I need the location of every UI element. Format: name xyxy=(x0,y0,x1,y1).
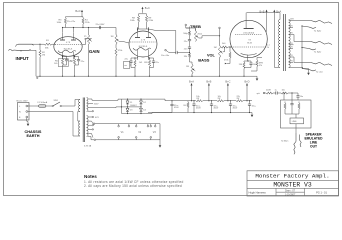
resistor R8 100k xyxy=(130,16,140,30)
label Notes xyxy=(84,174,97,179)
wire gain to ground xyxy=(88,45,89,77)
wire bridge left column xyxy=(122,99,128,113)
label mains 240V xyxy=(17,100,29,102)
wire tap common xyxy=(289,67,303,69)
resistor R2 1M xyxy=(39,44,46,57)
potentiometer BASS 1M xyxy=(186,62,195,74)
transformer T2 core xyxy=(284,14,286,71)
power B+B arrow screen xyxy=(260,9,268,31)
wire tap stub2 xyxy=(289,47,293,49)
wire V1 plate rail xyxy=(62,27,116,33)
capacitor C13 filter xyxy=(229,101,238,113)
potentiometer P2 1M xyxy=(111,35,120,45)
resistor R13 grid stopper xyxy=(221,43,228,48)
capacitor C3 22u xyxy=(77,57,85,65)
wire V1 cathode a xyxy=(62,55,67,77)
line out jack J5 xyxy=(294,133,301,154)
wire V3 plate to OT xyxy=(247,12,281,14)
heater V3 pins xyxy=(150,124,156,140)
svg-text:2W: 2W xyxy=(237,98,240,100)
label screen cap xyxy=(267,45,271,50)
resistor R18 22k xyxy=(236,96,243,102)
svg-text:B+B: B+B xyxy=(206,80,211,84)
heater V1 pins xyxy=(118,124,124,140)
resistor R21 in box xyxy=(284,102,286,115)
title page xyxy=(316,192,327,195)
svg-text:B+B: B+B xyxy=(260,9,265,13)
wire vol to ground xyxy=(219,58,220,77)
wire switch to cathode xyxy=(130,64,131,66)
label SPEAKER EMULATED LINE OUT xyxy=(304,132,323,148)
transformer T1 secondary HT xyxy=(87,98,88,112)
title date xyxy=(285,195,296,197)
wire HT tap bottom xyxy=(88,106,122,109)
svg-text:450V: 450V xyxy=(233,108,238,110)
label VOL xyxy=(207,53,215,57)
wire bridge mid rail xyxy=(121,106,142,107)
power rail B+B arrow xyxy=(206,80,211,101)
capacitor C2 22u xyxy=(65,57,73,65)
potentiometer VOL 1M xyxy=(214,45,223,58)
wire tap 16R xyxy=(289,19,298,21)
capacitor C0 reservoir xyxy=(170,100,195,112)
speaker jack J4 xyxy=(298,62,332,71)
wire bridge top rail xyxy=(127,99,146,100)
svg-text:GAIN: GAIN xyxy=(89,49,99,54)
wire heater tap 1 xyxy=(88,116,99,119)
svg-text:B+A: B+A xyxy=(189,80,194,84)
capacitor C14 filter xyxy=(248,101,257,113)
capacitor C6 22u xyxy=(152,58,160,66)
svg-text:Mains 240V: Mains 240V xyxy=(17,100,29,102)
resistor R12 33k xyxy=(184,53,191,58)
wire heater tap 5 xyxy=(84,134,93,148)
wire jack common bus xyxy=(301,25,302,68)
capacitor C8 500p xyxy=(183,31,190,36)
wire R1 to V1 grid xyxy=(52,43,56,45)
svg-text:6.3V 3A: 6.3V 3A xyxy=(84,144,92,147)
wire heater tap 3 xyxy=(88,125,94,126)
potentiometer GAIN 1M xyxy=(84,28,92,45)
capacitor C9 22n xyxy=(184,40,191,44)
wire V3 cathode node xyxy=(244,60,251,61)
svg-text:1M: 1M xyxy=(42,55,45,57)
node tone input xyxy=(185,24,190,28)
svg-text:BASS: BASS xyxy=(198,57,209,62)
wire screen feed xyxy=(266,31,267,33)
title company name xyxy=(255,173,329,180)
svg-text:Monster Factory Ampl.: Monster Factory Ampl. xyxy=(255,173,329,180)
node vol top xyxy=(219,27,221,45)
svg-text:16R: 16R xyxy=(290,19,294,21)
wire box to jack xyxy=(295,124,297,133)
resistor NFB 47k xyxy=(251,58,263,72)
wire heater tap 2 xyxy=(88,121,95,124)
svg-text:1u: 1u xyxy=(275,89,277,91)
node chassis ref xyxy=(37,77,38,78)
wire sec tap 5V xyxy=(88,111,94,112)
svg-text:1N4007: 1N4007 xyxy=(130,105,137,107)
svg-text:1M: 1M xyxy=(186,66,189,68)
svg-text:1-10-2007: 1-10-2007 xyxy=(285,195,296,197)
svg-text:2W: 2W xyxy=(196,98,199,100)
wire tap 4R xyxy=(289,43,294,45)
pilot lamp pins xyxy=(128,124,156,127)
resistor R4 220k xyxy=(82,18,91,28)
wire V2 cathode a xyxy=(131,57,138,77)
transformer T1 core xyxy=(83,98,84,143)
svg-text:B+A: B+A xyxy=(276,9,281,13)
wire V2 plate rail xyxy=(137,28,149,31)
wire vol wiper out xyxy=(223,47,225,52)
input jack J1 tip xyxy=(16,44,34,47)
node coupling xyxy=(165,49,176,52)
svg-text:LINE: LINE xyxy=(292,121,297,123)
wire HT tap top xyxy=(88,99,122,100)
wire T1 primary jog xyxy=(78,112,80,122)
svg-text:EL84: EL84 xyxy=(247,42,251,44)
title model name xyxy=(273,182,312,189)
svg-text:B+D: B+D xyxy=(244,80,249,84)
title drawn xyxy=(285,190,296,193)
wire B+ to OT primary xyxy=(274,66,280,68)
wire bridge bottom rail xyxy=(122,113,173,115)
diode D1 xyxy=(126,99,133,107)
label to spkr 2 xyxy=(314,50,322,53)
power rail B+A arrow xyxy=(189,80,194,102)
fuse F1 xyxy=(38,101,48,107)
ground speaker common xyxy=(302,68,310,76)
svg-text:450V: 450V xyxy=(196,108,201,110)
resistor R15 130R xyxy=(239,61,246,77)
resistor screen dropper xyxy=(183,101,189,113)
capacitor C10 100u xyxy=(244,61,258,68)
label rectifier diodes xyxy=(130,105,137,107)
resistor R6 cathode 820 xyxy=(70,59,76,66)
capacitor C5 22u xyxy=(125,58,133,66)
node line out input xyxy=(257,92,267,95)
svg-text:OUT: OUT xyxy=(310,144,317,148)
wire heater tap 4 xyxy=(88,129,94,130)
wire treb top xyxy=(186,28,196,31)
wire HT centre tap xyxy=(88,104,99,106)
svg-text:Hugh Harness: Hugh Harness xyxy=(249,191,267,195)
svg-text:2W: 2W xyxy=(218,98,221,100)
wire switch to PT xyxy=(61,100,80,107)
heater V2 pins xyxy=(135,124,141,140)
svg-text:MONSTER V3: MONSTER V3 xyxy=(273,182,312,189)
svg-text:47k: 47k xyxy=(259,65,262,67)
resistor R7 470k xyxy=(115,45,123,77)
power B+C arrow V2 xyxy=(142,6,151,14)
resistor R19 220R xyxy=(266,89,273,94)
label INPUT xyxy=(16,56,29,61)
triode V2 ECC83 xyxy=(129,27,157,60)
svg-text:10k: 10k xyxy=(282,89,285,91)
diode D2 xyxy=(140,99,147,107)
svg-text:220R: 220R xyxy=(266,89,271,91)
svg-text:To Spkr: To Spkr xyxy=(314,50,322,53)
transformer line xfmr xyxy=(290,118,304,124)
power rail B+D arrow xyxy=(244,80,249,101)
power B+A arrow OT xyxy=(273,9,281,67)
diode D3 xyxy=(126,107,133,114)
svg-text:B+C: B+C xyxy=(145,6,150,10)
label BASS xyxy=(198,57,209,62)
wire wiper to V2 grid xyxy=(119,42,129,44)
label GAIN xyxy=(89,49,99,54)
svg-text:To Main: To Main xyxy=(281,141,289,143)
wire box net xyxy=(285,114,299,118)
wire V2 cathode b xyxy=(149,57,154,77)
label TREB xyxy=(190,24,201,29)
label CHASSIS EARTH xyxy=(25,130,42,138)
wire into line out box xyxy=(283,92,292,100)
ground PSU rail xyxy=(251,113,254,118)
svg-text:450V: 450V xyxy=(174,107,179,109)
title author xyxy=(249,191,267,195)
resistor R20 10k xyxy=(281,89,298,94)
speaker jack J3 xyxy=(298,41,332,50)
wire V1 cathode b xyxy=(74,55,79,77)
diode D4 xyxy=(140,107,147,114)
resistor R3 100k xyxy=(57,18,67,28)
wire tap 8R xyxy=(289,33,298,42)
svg-text:470k: 470k xyxy=(224,60,228,62)
wire heater end xyxy=(159,124,161,143)
wire rail segment 4 xyxy=(243,100,252,101)
wire earth lead xyxy=(27,118,28,121)
resistor R17 10k xyxy=(217,96,224,102)
wire B+ feed V2 xyxy=(139,14,147,16)
capacitor C9b 22n xyxy=(184,47,191,51)
svg-text:INPUT: INPUT xyxy=(16,56,29,61)
wire bridge output xyxy=(146,99,172,101)
transformer T1 primary upper xyxy=(79,100,81,112)
transformer T2 primary xyxy=(279,13,281,68)
pentode V3 EL84 xyxy=(230,13,267,61)
box V1 cathode group xyxy=(58,59,68,67)
resistor R5 cathode 1k5 xyxy=(54,59,64,66)
wire PSU ground rail xyxy=(148,112,252,113)
wire R13 to grid xyxy=(228,46,231,48)
capacitor C16 10n xyxy=(296,93,303,100)
power rail B+C arrow xyxy=(225,80,230,101)
label to line xyxy=(316,72,324,74)
capacitor C17 in box xyxy=(290,100,293,114)
svg-text:2. All caps are Mallory 150 a: 2. All caps are Mallory 150 axial unless… xyxy=(84,184,182,188)
resistor R22 in box xyxy=(298,102,300,115)
wire tap stub3 xyxy=(289,61,293,63)
switch SW2 box xyxy=(124,62,130,69)
svg-text:22n+22n: 22n+22n xyxy=(67,21,76,23)
wire rail segment 2 xyxy=(203,100,217,101)
wire live to fuse xyxy=(28,105,39,107)
svg-text:EARTH: EARTH xyxy=(26,134,39,138)
svg-text:1M: 1M xyxy=(111,36,114,38)
power B+D arrow V1 xyxy=(75,9,83,17)
transformer T2 secondary xyxy=(289,20,291,68)
wire V1b grid from gain xyxy=(82,39,92,45)
switch SW1 xyxy=(52,100,61,107)
svg-text:325V: 325V xyxy=(94,104,99,106)
svg-text:Notes: Notes xyxy=(84,174,97,179)
capacitor C15 1u xyxy=(273,89,281,94)
wire sleeve to ground xyxy=(29,50,36,76)
svg-text:(7.65-548 4k3): (7.65-548 4k3) xyxy=(243,33,254,35)
svg-text:22n 630V: 22n 630V xyxy=(96,24,106,26)
wire ground bus xyxy=(36,76,258,81)
resistor R10 cathode xyxy=(134,60,143,67)
svg-text:4 7 8: 4 7 8 xyxy=(66,42,70,44)
wire bass to ground xyxy=(191,74,192,77)
wire heater rail top xyxy=(95,123,160,125)
wire rail to pot2 xyxy=(115,28,117,35)
connector mains inlet xyxy=(18,103,30,121)
resistor R1 68k xyxy=(44,40,52,49)
svg-text:To Spkr: To Spkr xyxy=(314,29,322,32)
svg-text:To Line: To Line xyxy=(316,72,324,74)
resistor R11 cathode xyxy=(144,60,150,67)
wire tap 100V xyxy=(289,55,298,62)
wire neutral to PT xyxy=(28,112,80,137)
svg-text:Drwn : 07: Drwn : 07 xyxy=(285,190,296,193)
ground heater xyxy=(159,143,162,148)
border frame xyxy=(4,3,339,196)
wire heater rail bottom xyxy=(96,139,160,141)
potentiometer TREB 250k xyxy=(194,29,202,42)
speaker jack J2 xyxy=(298,20,332,28)
svg-text:1M: 1M xyxy=(214,47,217,49)
wire fuse to switch xyxy=(46,105,52,107)
svg-text:B+D: B+D xyxy=(75,9,80,13)
capacitor C12 filter xyxy=(210,101,219,113)
wire B+ feed V1 xyxy=(65,17,83,18)
svg-text:PG 1 - 01: PG 1 - 01 xyxy=(316,192,327,195)
label to spkr 1 xyxy=(314,29,322,32)
wire heater tap 6 xyxy=(88,137,96,141)
ground chassis earth xyxy=(27,122,30,127)
box line out circuit xyxy=(281,100,312,128)
capacitor C11 filter xyxy=(192,100,201,112)
wire treb to vol xyxy=(199,35,220,38)
transformer T1 primary lower xyxy=(79,121,81,136)
resistor R16 10k xyxy=(196,96,203,102)
wire tap stub1 xyxy=(289,26,293,28)
label to main xyxy=(281,141,289,143)
wire R2 to ground xyxy=(39,57,40,77)
svg-text:2k: 2k xyxy=(267,47,269,49)
capacitor C4 22n xyxy=(96,24,106,29)
svg-text:450V: 450V xyxy=(214,108,219,110)
wire input to R1 xyxy=(32,44,44,45)
wire rail segment 3 xyxy=(224,100,236,101)
note line 1 xyxy=(84,180,184,184)
capacitor C7 10n xyxy=(161,51,190,57)
wire V2 plate out xyxy=(149,29,176,51)
triode V1 ECC83 xyxy=(54,33,82,60)
resistor R9 220k xyxy=(145,16,154,30)
svg-text:2k2: 2k2 xyxy=(183,105,186,107)
resistor R14 470k xyxy=(224,46,231,64)
svg-text:F1 500mA: F1 500mA xyxy=(38,101,48,104)
svg-text:10n+10n: 10n+10n xyxy=(161,55,170,57)
input jack J1 sleeve xyxy=(9,49,31,51)
label caps V1 xyxy=(67,21,76,23)
svg-text:4 7 8: 4 7 8 xyxy=(141,40,145,42)
svg-text:B+C: B+C xyxy=(225,80,230,84)
wire tone rail xyxy=(189,27,190,63)
transformer T1 secondary LT xyxy=(87,116,89,137)
title block frame xyxy=(247,171,339,196)
svg-text:10n: 10n xyxy=(300,96,303,98)
note line 2 xyxy=(84,184,182,188)
